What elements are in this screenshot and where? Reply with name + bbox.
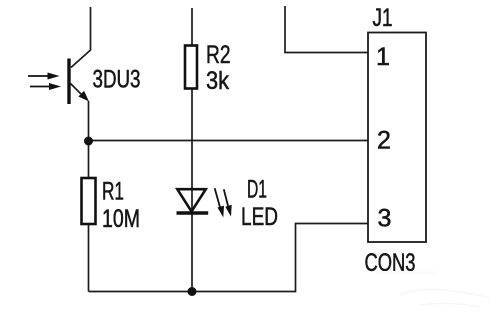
svg-text:3k: 3k bbox=[206, 67, 229, 95]
svg-text:1: 1 bbox=[376, 43, 390, 71]
svg-text:3DU3: 3DU3 bbox=[93, 66, 141, 94]
svg-text:LED: LED bbox=[241, 203, 278, 231]
svg-text:R1: R1 bbox=[102, 178, 124, 206]
svg-text:R2: R2 bbox=[206, 41, 231, 69]
svg-text:D1: D1 bbox=[247, 176, 267, 204]
svg-text:3: 3 bbox=[378, 205, 392, 233]
svg-text:2: 2 bbox=[377, 127, 391, 155]
svg-text:10M: 10M bbox=[102, 205, 140, 233]
svg-text:J1: J1 bbox=[373, 4, 393, 32]
